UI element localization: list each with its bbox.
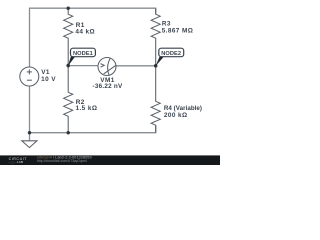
voltage source V1 <box>20 67 39 86</box>
node label NODE1 <box>71 48 96 57</box>
watermark bar <box>0 155 220 165</box>
junction dot node B (NODE2) <box>154 64 158 68</box>
node label NODE2 <box>159 48 184 57</box>
junction dot top of R1 <box>67 7 70 10</box>
wire: middle right (VM1 to NODE2) <box>116 65 156 67</box>
svg-text:5.867 MΩ: 5.867 MΩ <box>162 27 194 34</box>
svg-text:44 kΩ: 44 kΩ <box>75 29 95 36</box>
node label NODE2 tail <box>155 56 164 66</box>
svg-text:http://circuitlab.com/c73ap2qm: http://circuitlab.com/c73ap2qm4 <box>37 159 87 163</box>
svg-text:NODE1: NODE1 <box>73 51 93 57</box>
junction dot bottom left <box>28 131 31 134</box>
svg-text:NODE2: NODE2 <box>161 51 181 57</box>
svg-text:1.5 kΩ: 1.5 kΩ <box>76 105 98 112</box>
resistor R1 <box>64 8 73 65</box>
svg-text:200 kΩ: 200 kΩ <box>164 112 188 119</box>
wire: middle left (NODE1 to VM1) <box>68 65 98 67</box>
node label NODE1 tail <box>68 56 75 66</box>
svg-text:R3: R3 <box>162 20 171 27</box>
wire: bottom rail <box>30 87 156 133</box>
resistor R4 (variable) <box>151 66 160 133</box>
wire: ground stem <box>29 133 31 141</box>
junction dot bottom of R2 <box>67 131 70 134</box>
svg-text:—◻—LAB: —◻—LAB <box>8 160 24 164</box>
resistor R2 <box>64 66 73 133</box>
resistor R3 <box>151 8 160 66</box>
svg-text:10 V: 10 V <box>41 76 56 83</box>
ground <box>22 141 37 148</box>
voltmeter VM1 <box>98 58 116 76</box>
svg-text:-36.22 nV: -36.22 nV <box>93 83 123 90</box>
junction dot node A (NODE1) <box>66 64 70 68</box>
svg-text:R4 (Variable): R4 (Variable) <box>164 105 202 112</box>
wire: top rail <box>30 8 156 66</box>
